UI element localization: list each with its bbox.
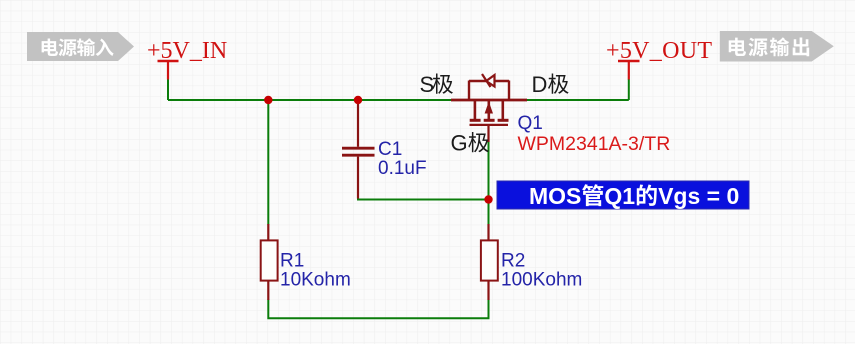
wire +5V_IN vertical drop: [167, 79, 169, 100]
pin label D极: [532, 72, 569, 97]
Q1 gate pin: [487, 125, 489, 142]
resistor R2: [481, 224, 498, 300]
designator C1: [378, 139, 402, 160]
R1 bottom pin: [267, 281, 269, 300]
value 10Kohm: [280, 270, 351, 291]
Q1 source-drain main line: [451, 99, 527, 102]
C1 top pin: [357, 100, 359, 147]
power port +5V_IN bar symbol: [158, 61, 179, 80]
svg-text:0.1uF: 0.1uF: [378, 158, 427, 179]
Q1 channel contact middle with substrate arrow: [487, 100, 490, 119]
svg-text:Q1: Q1: [518, 113, 543, 134]
capacitor C1: [342, 100, 375, 199]
junction node A (input rail / R1): [264, 96, 272, 104]
R2 body: [481, 240, 498, 280]
svg-text:Vgs = 0: Vgs = 0: [658, 183, 739, 209]
wire C1 bottom to node B: [358, 198, 489, 200]
Q1 body diode rail: [469, 80, 509, 82]
Q1 channel contact left: [474, 100, 477, 119]
svg-text:+5V_IN: +5V_IN: [147, 38, 227, 64]
svg-text:WPM2341A-3/TR: WPM2341A-3/TR: [518, 133, 671, 155]
svg-text:D: D: [532, 72, 548, 97]
Q1 channel contact right: [501, 100, 504, 119]
designator R1: [280, 251, 304, 272]
value WPM2341A-3/TR: [518, 133, 671, 155]
annotation banner 电源输入 (power input): [27, 32, 134, 61]
junction node B (gate / C1 / R2): [484, 195, 492, 203]
R1 body: [261, 240, 278, 280]
net label +5V_OUT: [606, 38, 712, 64]
resistor R1: [261, 224, 278, 300]
svg-text:S: S: [420, 72, 435, 97]
junction node C1 tap: [354, 96, 362, 104]
transistor Q1 P-MOSFET symbol: [451, 74, 527, 142]
Q1 body diode rail left stub: [468, 81, 470, 101]
svg-text:+5V_OUT: +5V_OUT: [606, 38, 712, 64]
Q1 channel bar segments: [470, 119, 481, 122]
pin label G极: [451, 131, 489, 156]
svg-text:100Kohm: 100Kohm: [501, 270, 582, 291]
pin label S极: [420, 72, 453, 97]
Q1 body diode rail right stub: [508, 81, 510, 101]
wire +5V_OUT vertical drop: [628, 79, 630, 100]
designator R2: [501, 251, 525, 272]
C1 bottom plate: [342, 154, 375, 157]
Q1 body diode triangle: [486, 75, 494, 87]
value 0.1uF: [378, 158, 427, 179]
svg-text:G: G: [451, 131, 468, 156]
wire R1 branch down from node A: [267, 100, 269, 225]
svg-text:10Kohm: 10Kohm: [280, 270, 351, 291]
R2 bottom pin: [487, 281, 489, 300]
annotation banner 电源输出 (power output): [720, 31, 834, 62]
power port +5V_OUT bar symbol: [618, 61, 640, 80]
C1 bottom pin: [357, 157, 359, 199]
C1 top plate: [342, 147, 375, 150]
svg-text:R2: R2: [501, 251, 525, 272]
R1 top pin: [267, 224, 269, 240]
R2 top pin: [487, 224, 489, 240]
net label +5V_IN: [147, 38, 227, 64]
designator Q1: [518, 113, 543, 134]
annotation callout MOS管Q1的Vgs = 0: [497, 181, 749, 209]
wire main horizontal +5V_IN rail: [168, 99, 629, 101]
wire bottom return R1 to R2: [268, 300, 488, 319]
Q1 body diode cathode bar: [482, 74, 491, 87]
svg-text:MOS: MOS: [529, 183, 581, 209]
svg-text:R1: R1: [280, 251, 304, 272]
svg-text:Q1: Q1: [604, 183, 635, 209]
value 100Kohm: [501, 270, 582, 291]
wire gate branch: gate pin to node B and down to R2: [488, 142, 490, 225]
Q1 gate plate: [470, 124, 509, 126]
